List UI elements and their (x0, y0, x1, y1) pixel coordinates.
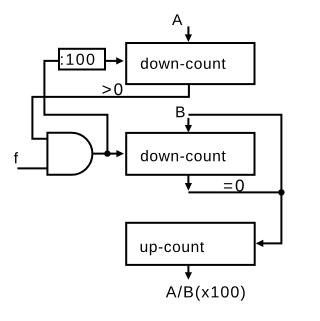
box U2 down-count (B) (126, 133, 254, 175)
arrowhead :100 into U1 (116, 57, 124, 64)
wire :100 feed (from AND output junction up and left into :100) (44, 61, 107, 154)
wire :100 to down-count A (105, 60, 117, 62)
arrowhead U3 output down (185, 272, 192, 280)
wire B input vertical (187, 118, 189, 126)
label down-count U2 (141, 150, 226, 161)
junction dot =0 / feedback node (278, 189, 284, 195)
label down-count U1 (141, 58, 226, 69)
arrowhead feedback into U3 right (256, 240, 264, 247)
wire =0 horizontal (188, 191, 281, 193)
arrowhead U2 out down to =0 wire (185, 183, 192, 191)
wire feedback down to up-count (262, 192, 282, 243)
wire U3 result output down (187, 265, 189, 273)
wire B reload feedback (top) (188, 115, 281, 193)
junction dot AND output node (104, 150, 110, 156)
label B (176, 107, 184, 118)
label f (14, 152, 18, 163)
wire A input vertical (187, 26, 189, 35)
arrowhead AND out into U2 (116, 150, 124, 157)
and-gate G1 (47, 133, 92, 175)
box U3 up-count (126, 223, 255, 265)
wire net >0 (from U1 bottom to AND input 1) (32, 84, 189, 139)
label up-count U3 (141, 242, 204, 255)
wire AND output to U2 (92, 153, 117, 155)
label >0 (103, 83, 123, 95)
label A (172, 14, 182, 25)
wire U2 zero output down (187, 175, 189, 184)
box U4 :100 prescaler (59, 49, 105, 70)
label A/B(x100) output (166, 286, 245, 301)
wire f input (17, 167, 47, 169)
label =0 (224, 180, 244, 192)
arrowhead A into U1 (185, 34, 192, 42)
arrowhead B into U2 (185, 125, 192, 133)
label :100 (61, 54, 94, 65)
box U1 down-count (A) (126, 43, 254, 84)
